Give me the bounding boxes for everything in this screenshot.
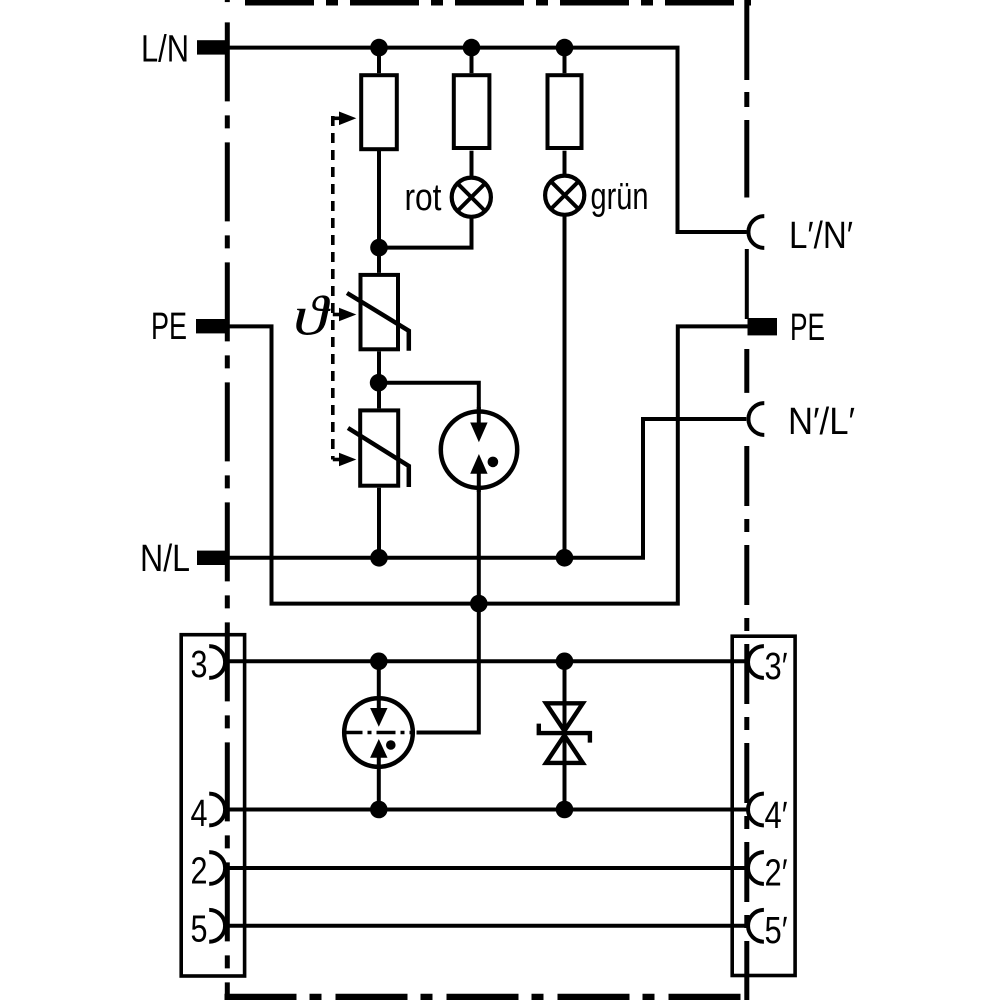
terminal arc N'/L' xyxy=(748,403,764,435)
terminal arc L'/N' xyxy=(748,216,764,248)
svg-text:4′: 4′ xyxy=(765,795,788,837)
terminal arc 5' xyxy=(748,910,764,942)
enclosure border left (dash-dot) xyxy=(225,0,230,2)
thermal monitoring dashed line xyxy=(331,116,335,460)
junction node F1-RV1-lamp xyxy=(370,239,388,257)
junction node RV1-RV2-G1 xyxy=(370,374,388,392)
svg-text:N/L: N/L xyxy=(140,538,190,580)
lower left terminal block box xyxy=(181,635,244,976)
junction node L/N-F2 xyxy=(463,39,481,57)
thermal arrow head bottom xyxy=(339,453,356,467)
junction node N/L-RV2 xyxy=(370,549,388,567)
svg-text:3′: 3′ xyxy=(765,646,788,688)
lamp gruen xyxy=(545,176,584,215)
fuse F2 xyxy=(454,75,490,148)
varistor RV1 xyxy=(347,275,409,351)
wire F3 to lamp gruen xyxy=(563,151,567,176)
terminal arc 4' xyxy=(748,794,764,826)
lower right terminal block box xyxy=(732,636,795,975)
terminal arc 3 xyxy=(209,646,225,678)
junction node row3-D1 xyxy=(556,653,574,671)
junction node row4-D1 xyxy=(556,801,574,819)
gas discharge tube G1 xyxy=(441,407,517,492)
svg-text:L/N: L/N xyxy=(141,29,189,71)
terminal L/N (black pad) xyxy=(197,40,226,54)
svg-text:PE: PE xyxy=(151,306,187,348)
svg-text:grün: grün xyxy=(591,176,649,218)
thermal arrow stub bottom xyxy=(333,458,340,462)
terminal arc 2 xyxy=(209,852,225,884)
wire RV1 to RV2 xyxy=(377,351,381,408)
svg-text:4: 4 xyxy=(191,793,208,835)
fuse F3 xyxy=(548,75,582,148)
wire row 3 to 3' xyxy=(227,659,748,663)
terminal PE right (black pad) xyxy=(748,318,778,335)
right border solid segment between L'/N' and PE xyxy=(745,249,749,319)
wire G1 bottom down to PE rail junction and to G2 right side xyxy=(417,472,479,733)
svg-text:ϑ: ϑ xyxy=(293,284,331,347)
wire RV2 bottom to N/L rail xyxy=(377,488,381,558)
wire F1 to varistor RV1 with junction xyxy=(377,151,381,273)
terminal N/L (black pad) xyxy=(197,551,226,565)
wire row 5 to 5' xyxy=(227,924,748,928)
thermal arrow head top xyxy=(339,112,356,126)
wire PE path left terminal to right terminal xyxy=(226,326,748,603)
junction node row3-G2 xyxy=(370,653,388,671)
wire N/L rail up to N'/L' xyxy=(226,419,746,558)
wire fuse F1 top lead xyxy=(377,48,381,74)
wire row 4 to 4' xyxy=(227,808,748,812)
wire lamp rot down and left to junction xyxy=(379,217,472,248)
wire row 2 to 2' xyxy=(227,866,748,870)
wire varistor junction to gas tube G1 xyxy=(379,383,479,425)
junction node row4-G2 xyxy=(370,801,388,819)
junction node N/L-gruen xyxy=(556,549,574,567)
terminal arc 2' xyxy=(748,852,764,884)
svg-text:5: 5 xyxy=(191,909,208,951)
wire TVS diode D1 through-lead xyxy=(563,661,567,809)
svg-text:rot: rot xyxy=(405,177,442,219)
svg-text:PE: PE xyxy=(790,307,825,349)
terminal arc 3' xyxy=(748,646,764,678)
junction node L/N-F1 xyxy=(370,39,388,57)
gas discharge tube G2 xyxy=(344,698,415,767)
fuse F1 xyxy=(361,75,397,149)
wire F2 to lamp rot xyxy=(470,151,474,178)
terminal PE left (black pad) xyxy=(196,319,226,333)
wire G2 bottom lead xyxy=(377,756,381,810)
svg-text:2′: 2′ xyxy=(765,853,788,895)
thermal arrow stub top xyxy=(333,117,340,121)
TVS diode D1 xyxy=(539,703,590,763)
wire fuse F3 top lead xyxy=(563,48,567,74)
svg-text:N′/L′: N′/L′ xyxy=(788,401,855,443)
wire L/N horizontal rail and down to L'/N' xyxy=(226,48,747,232)
varistor RV2 xyxy=(348,410,409,487)
svg-text:5′: 5′ xyxy=(765,910,788,952)
enclosure border top (dash-dot) xyxy=(245,0,751,6)
thermal arrow head middle xyxy=(339,308,356,322)
thermal arrow stub middle xyxy=(333,313,340,317)
junction node L/N-F3 xyxy=(556,39,574,57)
enclosure border bottom (dash-dot) xyxy=(225,994,752,1000)
svg-text:3: 3 xyxy=(191,644,208,686)
svg-text:L′/N′: L′/N′ xyxy=(789,215,853,257)
enclosure border right (dash-dot) xyxy=(744,0,749,198)
wire fuse F2 top lead xyxy=(470,48,474,74)
terminal arc 4 xyxy=(209,794,225,826)
lamp rot xyxy=(452,178,491,217)
junction node PE-G1 xyxy=(470,595,488,613)
wire G2 top lead xyxy=(377,661,381,709)
svg-text:2: 2 xyxy=(191,851,208,893)
wire lamp gruen down to N/L rail xyxy=(563,215,567,558)
terminal arc 5 xyxy=(209,910,225,942)
